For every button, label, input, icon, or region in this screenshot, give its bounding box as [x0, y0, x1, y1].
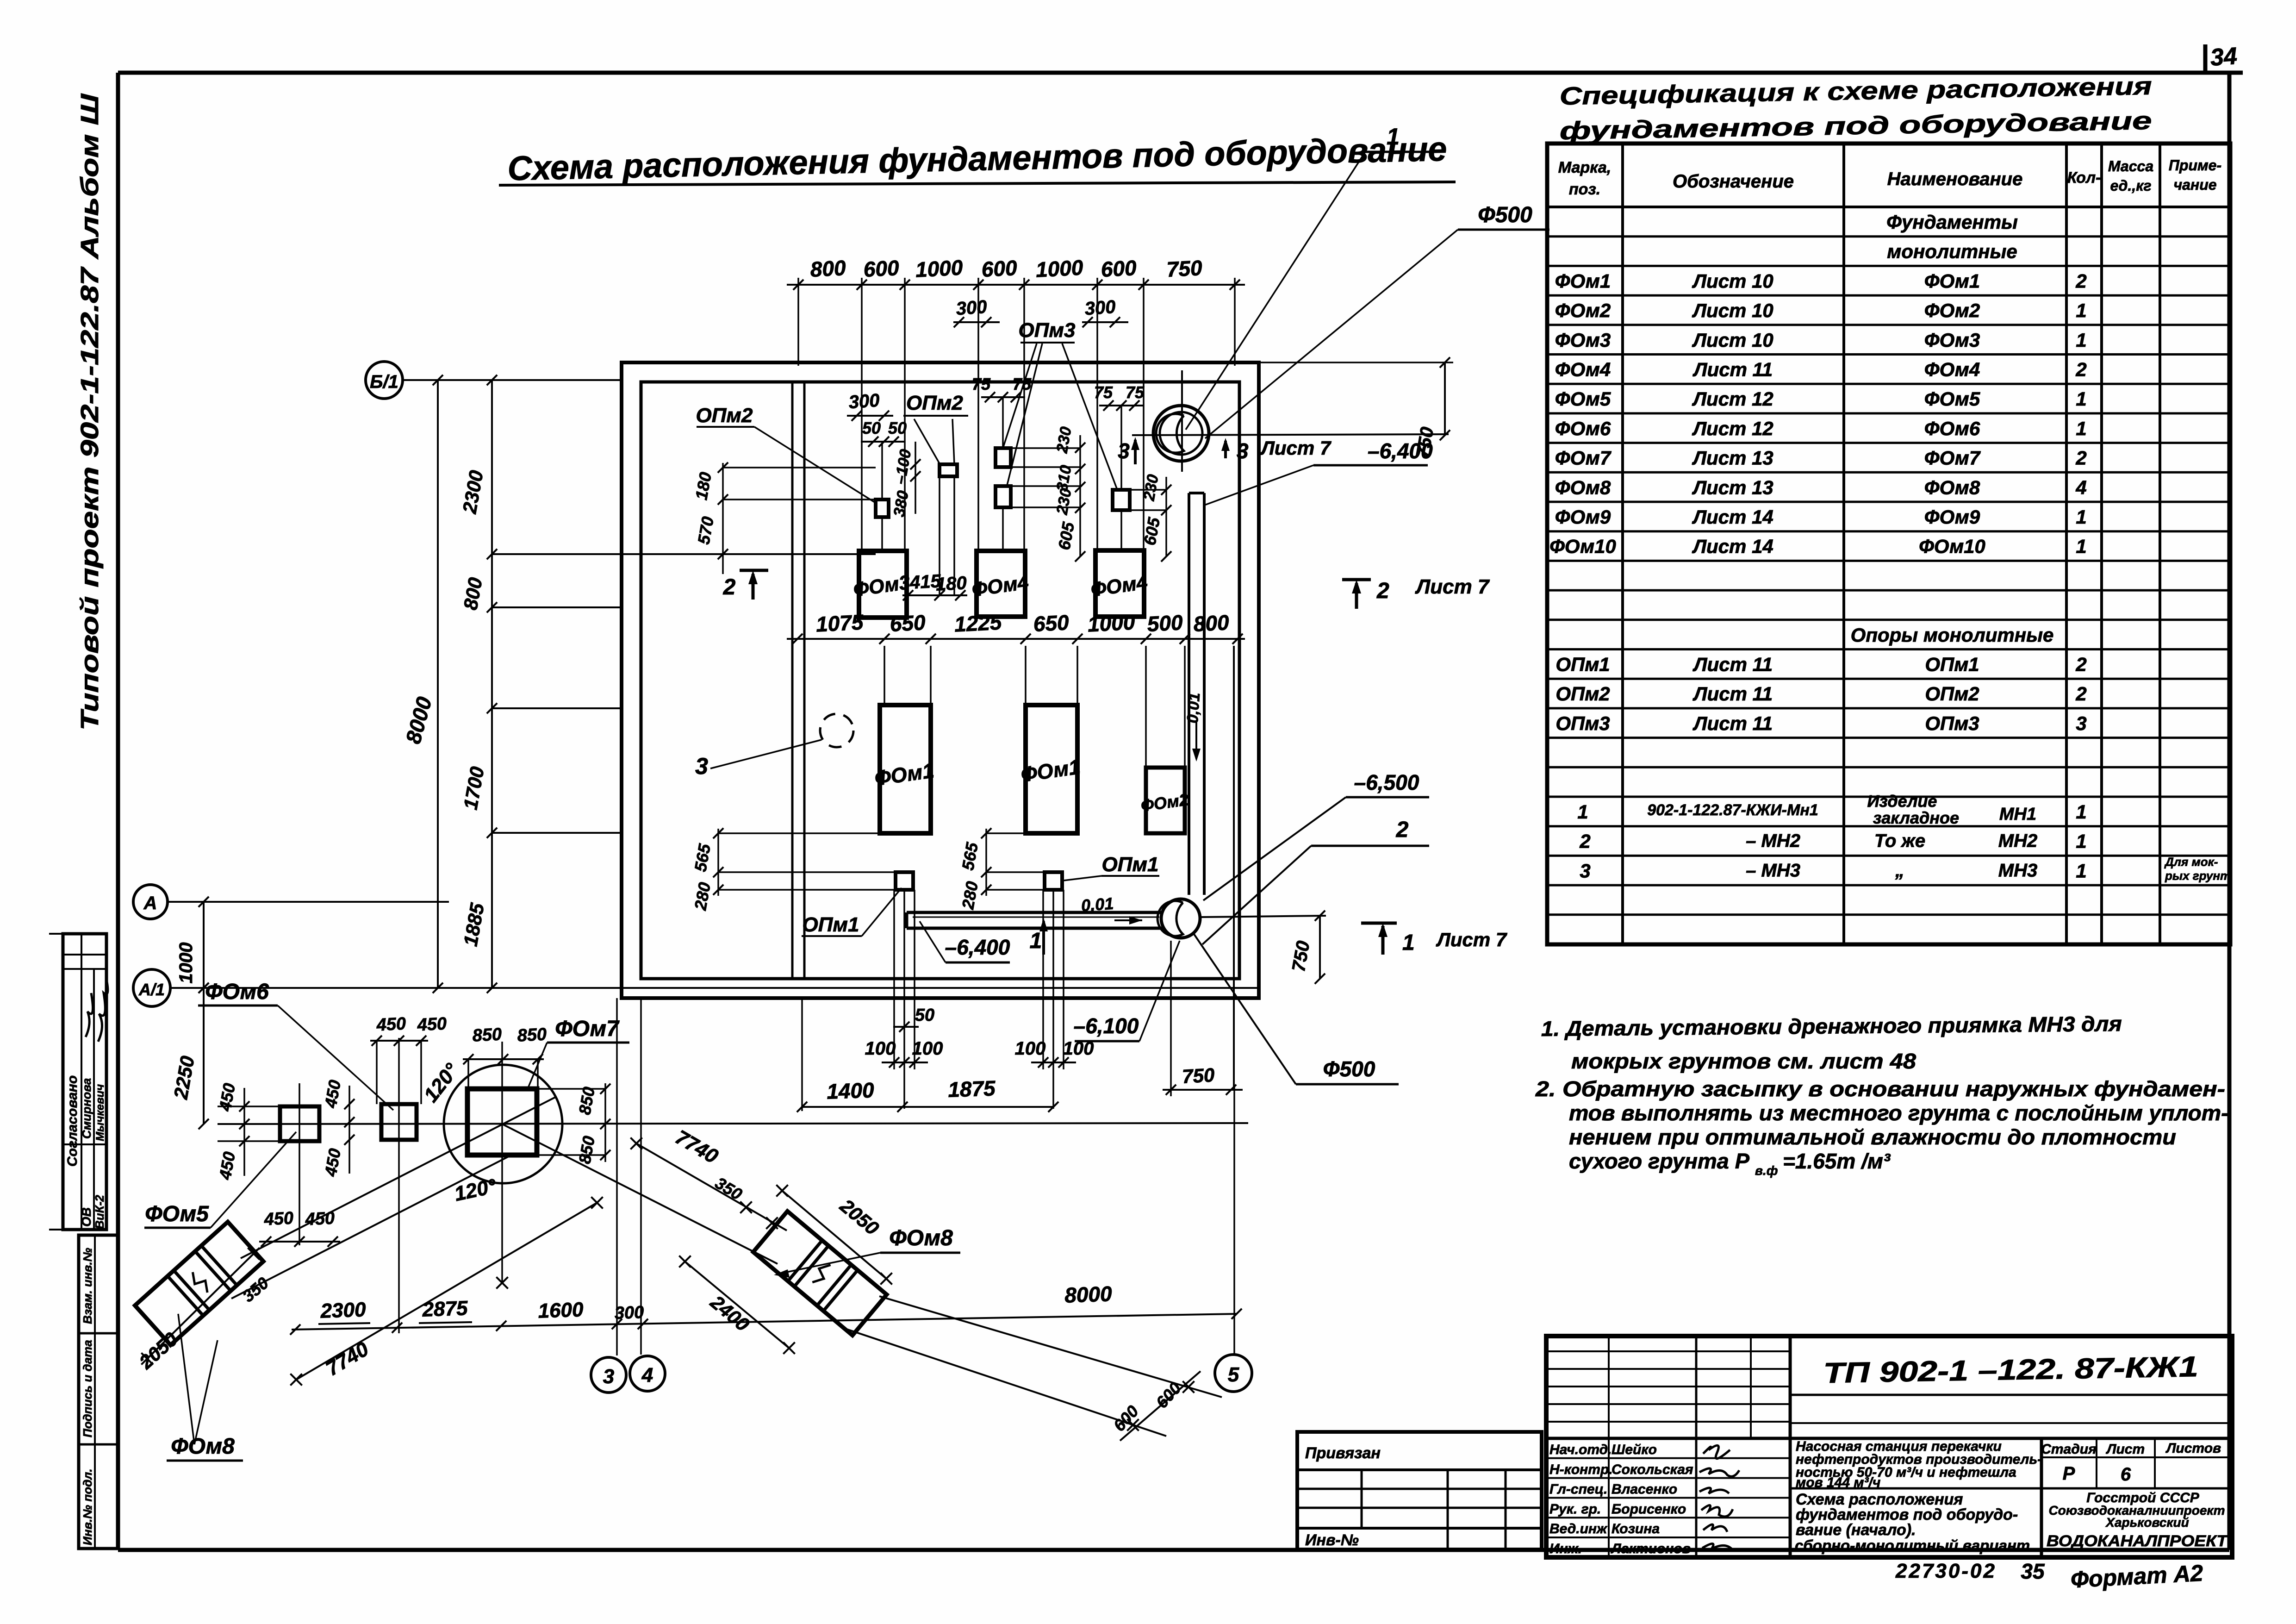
svg-text:ОПм1: ОПм1	[803, 913, 859, 936]
svg-text:2300: 2300	[320, 1298, 367, 1322]
svg-text:Обозначение: Обозначение	[1673, 171, 1794, 192]
svg-text:„: „	[1895, 860, 1904, 881]
svg-text:Лактионов: Лактионов	[1611, 1541, 1691, 1556]
svg-text:600: 600	[863, 256, 900, 281]
svg-text:1000: 1000	[1035, 255, 1084, 281]
svg-text:Борисенко: Борисенко	[1612, 1501, 1686, 1517]
svg-text:Мычкевич: Мычкевич	[94, 1084, 106, 1141]
svg-text:1: 1	[1402, 931, 1415, 955]
sheet border frame	[118, 71, 2243, 75]
extension verticals to ФОм1/ФОм2	[884, 646, 885, 705]
leader to col3 support	[1062, 344, 1117, 488]
svg-text:Рук. гр.: Рук. гр.	[1549, 1501, 1601, 1517]
svg-text:сборно-монолитный вариант: сборно-монолитный вариант	[1795, 1537, 2030, 1554]
leader ОПм2 to support	[754, 427, 875, 502]
section mark 3 right with Лист 7	[1224, 441, 1227, 458]
foundation ФОм1 b	[1026, 705, 1077, 833]
svg-text:ФОм4: ФОм4	[1924, 359, 1980, 381]
dim line 1400 / 1875	[802, 1106, 1053, 1108]
svg-text:ФОм7: ФОм7	[555, 1017, 620, 1041]
svg-text:ОПм3: ОПм3	[1556, 712, 1610, 734]
svg-text:3: 3	[603, 1365, 614, 1388]
svg-text:–6,500: –6,500	[1354, 770, 1419, 794]
svg-text:ОПм2: ОПм2	[1556, 683, 1610, 705]
svg-text:3: 3	[695, 753, 708, 779]
svg-text:ФОм7: ФОм7	[1924, 447, 1981, 469]
svg-text:нением при оптимальной влаж: нением при оптимальной влажности до плот…	[1569, 1125, 2176, 1149]
svg-text:ФОм9: ФОм9	[1555, 506, 1611, 528]
left vertical dim line 8000	[437, 380, 439, 988]
svg-text:Лист 7: Лист 7	[1260, 437, 1332, 459]
svg-text:Лист 13: Лист 13	[1692, 447, 1773, 469]
axis А	[133, 885, 168, 919]
internal wall lines	[791, 382, 794, 979]
svg-text:1: 1	[2076, 418, 2086, 439]
svg-text:Опоры монолитные: Опоры монолитные	[1851, 624, 2054, 646]
svg-text:тов выполнять из местного: тов выполнять из местного грунта с посло…	[1569, 1101, 2228, 1125]
svg-text:поз.: поз.	[1569, 181, 1600, 198]
svg-text:2: 2	[2075, 359, 2086, 381]
svg-text:100: 100	[912, 1038, 943, 1059]
svg-text:750: 750	[1182, 1064, 1215, 1087]
svg-text:Типовой проект 902-1-122.87: Типовой проект 902-1-122.87 Альбом Ш	[76, 94, 104, 731]
section mark 2 right with Лист 7	[1342, 578, 1371, 581]
axis Б/1	[366, 362, 403, 399]
svg-text:2: 2	[2075, 447, 2086, 469]
svg-text:35: 35	[2021, 1559, 2045, 1583]
svg-text:22730-02: 22730-02	[1895, 1560, 1997, 1582]
svg-text:ОПм3: ОПм3	[1925, 712, 1979, 734]
svg-text:Лист 12: Лист 12	[1692, 418, 1773, 439]
mid dimension line 1075-650-1225-650-1000-500-800	[787, 638, 1245, 640]
svg-text:=1.65т /м³: =1.65т /м³	[1783, 1149, 1891, 1173]
svg-text:1: 1	[2076, 801, 2086, 823]
svg-text:вание (начало).: вание (начало).	[1796, 1521, 1916, 1539]
svg-text:1400: 1400	[826, 1078, 875, 1104]
svg-text:2: 2	[1376, 579, 1389, 603]
svg-text:300: 300	[848, 390, 880, 413]
svg-text:34: 34	[2209, 43, 2238, 71]
svg-text:Лист 13: Лист 13	[1692, 476, 1773, 498]
svg-text:ФОм5: ФОм5	[1924, 388, 1980, 410]
vertical channel	[1188, 493, 1190, 895]
svg-text:300: 300	[955, 297, 988, 319]
top dimension line 800-600-1000-600-1000-600-750	[787, 284, 1245, 286]
svg-text:75: 75	[972, 375, 991, 394]
axis circle 4	[630, 1356, 665, 1391]
svg-text:6: 6	[2121, 1464, 2131, 1485]
svg-text:1: 1	[2076, 860, 2086, 881]
svg-text:чание: чание	[2173, 176, 2216, 193]
svg-text:850: 850	[517, 1024, 548, 1045]
page number notch	[2203, 44, 2208, 73]
svg-text:Лист 14: Лист 14	[1692, 506, 1773, 528]
svg-text:ФОм3: ФОм3	[1555, 329, 1611, 351]
svg-text:ФОм6: ФОм6	[1555, 418, 1611, 439]
foundation ФОм3	[859, 551, 907, 618]
svg-text:1: 1	[1030, 929, 1042, 953]
right foundation ФОм8 rotated	[753, 1211, 886, 1335]
svg-text:Лист 11: Лист 11	[1692, 683, 1773, 705]
building inner wall	[641, 382, 1239, 979]
svg-text:2: 2	[2075, 654, 2086, 675]
left margin approval box (Согласовано)	[63, 934, 106, 1230]
svg-text:Смирнова: Смирнова	[80, 1078, 93, 1139]
svg-text:Лист 10: Лист 10	[1692, 300, 1773, 321]
dim 7740 right	[636, 1143, 787, 1230]
svg-text:Харьковский: Харьковский	[2105, 1515, 2189, 1530]
svg-text:Кол-: Кол-	[2067, 169, 2101, 187]
svg-text:75: 75	[1126, 383, 1145, 402]
svg-text:Вед.инж: Вед.инж	[1549, 1521, 1608, 1537]
svg-text:ФОм2: ФОм2	[1924, 300, 1980, 321]
foundation ФОм1 a	[880, 705, 931, 833]
svg-text:1: 1	[2076, 506, 2086, 528]
svg-text:1000: 1000	[915, 255, 964, 281]
svg-text:ОПм1: ОПм1	[1102, 853, 1159, 876]
svg-text:100: 100	[865, 1038, 896, 1059]
extension verticals below ОПм1 b	[1042, 890, 1044, 1069]
svg-text:Наименование: Наименование	[1887, 169, 2023, 189]
svg-text:2: 2	[1579, 831, 1590, 852]
svg-text:600: 600	[981, 256, 1018, 281]
svg-text:1000: 1000	[1087, 610, 1136, 636]
svg-text:закладное: закладное	[1873, 808, 1959, 827]
ext of building top to dim 750	[1259, 362, 1453, 363]
svg-text:Фундаменты: Фундаменты	[1886, 211, 2018, 233]
svg-text:3: 3	[1237, 439, 1249, 463]
svg-text:МН3: МН3	[1998, 860, 2037, 881]
svg-text:ВиК-2: ВиК-2	[93, 1195, 106, 1229]
svg-text:Взам. инв.№: Взам. инв.№	[81, 1248, 94, 1324]
svg-text:ОПм2: ОПм2	[1925, 683, 1979, 705]
privyazan table	[1297, 1432, 1542, 1549]
svg-text:1: 1	[2076, 388, 2086, 410]
bottom long dim line with 2300/2875/1600/300/8000	[292, 1314, 1237, 1330]
leader to col2 support upper	[1003, 344, 1037, 447]
svg-text:в.ф: в.ф	[1755, 1163, 1778, 1178]
svg-text:3: 3	[2076, 712, 2086, 734]
svg-text:ОПм2: ОПм2	[696, 404, 753, 427]
svg-text:ФОм3: ФОм3	[1924, 329, 1980, 351]
section mark 2 left	[740, 569, 768, 572]
svg-text:сухого грунта Р: сухого грунта Р	[1569, 1149, 1749, 1173]
svg-text:А: А	[143, 893, 157, 913]
svg-text:рых грунт: рых грунт	[2165, 868, 2231, 882]
svg-text:МН2: МН2	[1998, 831, 2037, 851]
svg-text:Лист 14: Лист 14	[1692, 536, 1773, 557]
svg-text:800: 800	[1193, 610, 1230, 636]
svg-text:1: 1	[1577, 801, 1588, 823]
svg-text:3: 3	[1580, 860, 1590, 881]
svg-text:Лист 10: Лист 10	[1692, 270, 1773, 292]
svg-text:ФОм8: ФОм8	[1555, 476, 1611, 498]
svg-text:ОПм2: ОПм2	[906, 392, 963, 414]
leader to col2 support lower	[1007, 344, 1042, 485]
svg-text:Изделие: Изделие	[1867, 792, 1937, 811]
svg-text:1: 1	[1387, 124, 1400, 150]
svg-text:500: 500	[1146, 610, 1183, 636]
detail axis line	[218, 1123, 1248, 1124]
svg-text:1000: 1000	[176, 943, 196, 984]
svg-text:ОВ: ОВ	[79, 1207, 93, 1227]
svg-text:ФОм5: ФОм5	[1555, 388, 1611, 410]
axis circle 3	[591, 1357, 626, 1393]
svg-text:Б/1: Б/1	[370, 372, 398, 392]
svg-text:Инв-№: Инв-№	[1305, 1531, 1359, 1549]
line from sump to right	[1201, 916, 1326, 917]
svg-text:ФОм10: ФОм10	[1549, 536, 1616, 557]
drain circle Ф500	[1153, 406, 1209, 461]
svg-text:Лист 11: Лист 11	[1692, 359, 1773, 381]
wall axes 3 and 4 extensions	[616, 998, 618, 1355]
supports ОПм3 col2	[996, 448, 1011, 467]
svg-text:1: 1	[2076, 329, 2086, 351]
svg-text:902-1-122.87-КЖИ-Мн1: 902-1-122.87-КЖИ-Мн1	[1647, 801, 1818, 819]
left foundation ФОм8 rotated	[135, 1222, 264, 1345]
svg-text:Инв.№ подл.: Инв.№ подл.	[81, 1468, 94, 1545]
svg-text:50: 50	[888, 418, 907, 437]
axis circle 5	[1215, 1355, 1252, 1392]
dashed opening circle	[820, 714, 853, 747]
support ОПм1 b	[1045, 872, 1062, 890]
svg-text:– МН2: – МН2	[1746, 831, 1800, 851]
signatures squiggles	[86, 993, 93, 1037]
svg-text:1600: 1600	[538, 1298, 584, 1322]
svg-text:То же: То же	[1874, 831, 1925, 851]
svg-text:ФОм1: ФОм1	[1924, 270, 1980, 292]
svg-text:75: 75	[1094, 383, 1113, 402]
svg-text:ФОм8: ФОм8	[889, 1226, 953, 1250]
support ОПм1 a	[896, 872, 913, 890]
support ОПм3 col3	[1113, 490, 1130, 510]
svg-text:Лист 11: Лист 11	[1692, 654, 1773, 675]
circle around ФОм7	[444, 1065, 562, 1183]
svg-text:450: 450	[376, 1014, 407, 1035]
svg-text:Шейко: Шейко	[1612, 1442, 1657, 1457]
svg-text:Для мок-: Для мок-	[2164, 855, 2218, 868]
support ОПм2 rect	[940, 464, 957, 476]
drainage sump circle	[1161, 899, 1200, 938]
foundation ФОм4 b	[1095, 550, 1144, 617]
svg-text:ФОм8: ФОм8	[171, 1434, 235, 1459]
extension verticals below ОПм1 a	[893, 890, 895, 1069]
left vertical dim line 2300/800/1700/1885	[491, 380, 493, 988]
svg-text:4: 4	[2075, 476, 2086, 498]
svg-text:ФОм6: ФОм6	[205, 980, 269, 1004]
svg-text:2. Обратную засыпку в основа: 2. Обратную засыпку в основании наружных…	[1535, 1077, 2225, 1101]
svg-text:монолитные: монолитные	[1887, 241, 2017, 262]
axis А/1	[133, 969, 170, 1006]
leader funnel left	[914, 419, 940, 464]
svg-text:Лист: Лист	[2106, 1442, 2145, 1457]
svg-text:Власенко: Власенко	[1612, 1482, 1677, 1497]
signature squiggles	[1703, 1445, 1730, 1458]
svg-text:ФОм7: ФОм7	[1555, 447, 1612, 469]
foundation ФОм2	[1146, 768, 1185, 833]
svg-text:Листов: Листов	[2165, 1441, 2221, 1456]
svg-text:450: 450	[263, 1208, 294, 1229]
svg-text:600: 600	[1100, 256, 1137, 281]
svg-text:–6,400: –6,400	[945, 935, 1010, 959]
svg-text:Лист 11: Лист 11	[1692, 712, 1773, 734]
svg-text:Подпись и дата: Подпись и дата	[81, 1340, 94, 1437]
foundation ФОм4 a	[977, 551, 1025, 617]
specification table grid	[1547, 144, 2230, 944]
foundation ФОм7	[467, 1089, 537, 1155]
svg-text:Лист 10: Лист 10	[1692, 329, 1773, 351]
svg-text:Согласовано: Согласовано	[65, 1075, 80, 1167]
svg-text:1: 1	[2076, 536, 2086, 557]
svg-text:8000: 8000	[1064, 1281, 1113, 1307]
strip parallels down right	[879, 1296, 1222, 1397]
svg-text:Н-контр.: Н-контр.	[1549, 1462, 1613, 1477]
svg-text:Лист 12: Лист 12	[1692, 388, 1773, 410]
left margin inventory box	[79, 1235, 118, 1549]
svg-text:5: 5	[1228, 1363, 1239, 1386]
svg-text:300: 300	[614, 1303, 644, 1323]
svg-text:ФОм9: ФОм9	[1924, 506, 1980, 528]
svg-text:1: 1	[2076, 831, 2086, 852]
svg-text:300: 300	[1084, 297, 1116, 319]
ext vertical axis 5 upper	[1233, 646, 1235, 1087]
svg-text:750: 750	[1166, 256, 1203, 281]
svg-text:Марка,: Марка,	[1558, 159, 1611, 176]
extension lines from left dims	[492, 553, 876, 555]
svg-text:1875: 1875	[947, 1076, 996, 1102]
svg-text:Масса: Масса	[2108, 158, 2153, 175]
svg-text:50: 50	[915, 1006, 934, 1025]
svg-text:50: 50	[862, 418, 881, 437]
svg-text:0,01: 0,01	[1081, 894, 1114, 915]
svg-text:100: 100	[1063, 1038, 1094, 1059]
svg-text:–6,100: –6,100	[1074, 1014, 1139, 1038]
svg-text:2875: 2875	[422, 1297, 468, 1321]
svg-text:Приме-: Приме-	[2169, 157, 2221, 174]
verticals through detail	[299, 1083, 300, 1245]
svg-text:МН1: МН1	[1999, 805, 2036, 824]
svg-text:2: 2	[2075, 270, 2086, 292]
svg-text:Ф500: Ф500	[1478, 203, 1532, 227]
section mark 1 with Лист 7 bottom right	[1361, 922, 1397, 925]
svg-text:4: 4	[641, 1364, 653, 1387]
foundation ФОм5	[280, 1106, 319, 1141]
svg-text:А/1: А/1	[138, 980, 165, 999]
drainage channel horizontal	[907, 911, 1163, 914]
svg-text:Лист 7: Лист 7	[1436, 929, 1507, 950]
svg-text:100: 100	[1015, 1038, 1046, 1059]
svg-text:ОПм3: ОПм3	[1019, 319, 1076, 342]
svg-text:650: 650	[1033, 610, 1070, 636]
svg-text:Инж.: Инж.	[1549, 1541, 1582, 1556]
svg-text:650: 650	[889, 610, 926, 636]
svg-text:1075: 1075	[815, 610, 865, 636]
svg-text:ФОм5: ФОм5	[145, 1202, 209, 1226]
svg-text:450: 450	[417, 1014, 448, 1035]
axis 5 extension	[1233, 1087, 1235, 1355]
svg-text:Козина: Козина	[1612, 1521, 1660, 1537]
left strip lines to ФОм8	[241, 1097, 555, 1258]
svg-text:Лист 7: Лист 7	[1415, 575, 1490, 598]
svg-text:850: 850	[472, 1024, 503, 1045]
title block outer	[1546, 1336, 2232, 1557]
svg-text:Нач.отд.: Нач.отд.	[1549, 1442, 1612, 1457]
svg-text:0,01: 0,01	[1184, 692, 1204, 724]
title block grid	[1546, 1350, 1790, 1352]
svg-text:ФОм4: ФОм4	[1555, 359, 1611, 381]
svg-text:3: 3	[1118, 439, 1130, 463]
svg-text:ВОДОКАНАЛПРОЕКТ: ВОДОКАНАЛПРОЕКТ	[2047, 1532, 2229, 1550]
svg-text:– МН3: – МН3	[1746, 860, 1800, 881]
svg-text:Сокольская: Сокольская	[1612, 1462, 1693, 1477]
svg-text:ФОм10: ФОм10	[1919, 536, 1985, 557]
svg-text:Р: Р	[2063, 1463, 2075, 1484]
svg-text:800: 800	[809, 256, 846, 281]
svg-text:ФОм8: ФОм8	[1924, 476, 1980, 498]
svg-text:2: 2	[1396, 818, 1409, 842]
building outer wall	[622, 362, 1259, 998]
extension verticals from top dims	[797, 278, 799, 366]
svg-text:1: 1	[2076, 300, 2086, 321]
dim line 7740 left	[296, 1203, 597, 1380]
svg-text:Привязан: Привязан	[1305, 1444, 1381, 1462]
svg-text:ФОм1: ФОм1	[1555, 270, 1611, 292]
leader funnel right	[952, 419, 954, 464]
svg-text:ТП 902-1 –122. 87-КЖ1: ТП 902-1 –122. 87-КЖ1	[1823, 1351, 2198, 1389]
svg-text:1225: 1225	[954, 610, 1003, 636]
svg-text:ОПм1: ОПм1	[1556, 654, 1610, 675]
dim 1000 between А and А/1	[203, 902, 205, 988]
svg-text:ед.,кг: ед.,кг	[2110, 177, 2151, 194]
right strip lines	[502, 1124, 778, 1264]
svg-text:мокрых грунтов см. лист 4: мокрых грунтов см. лист 48	[1571, 1049, 1916, 1073]
svg-text:2: 2	[723, 575, 736, 600]
svg-text:ОПм1: ОПм1	[1925, 654, 1979, 675]
svg-text:1. Деталь установки дренажно: 1. Деталь установки дренажного приямка М…	[1541, 1012, 2122, 1041]
svg-text:Стадия: Стадия	[2041, 1442, 2097, 1457]
svg-text:ФОм6: ФОм6	[1924, 418, 1980, 439]
foundation ФОм6	[381, 1104, 417, 1140]
svg-text:2: 2	[2075, 683, 2086, 705]
support ОПм2 square	[876, 500, 889, 517]
svg-text:Ф500: Ф500	[1323, 1057, 1375, 1081]
svg-text:180: 180	[935, 573, 967, 594]
svg-text:Гл-спец.: Гл-спец.	[1549, 1482, 1607, 1497]
svg-text:ФОм2: ФОм2	[1555, 300, 1611, 321]
leader 3	[710, 740, 821, 768]
